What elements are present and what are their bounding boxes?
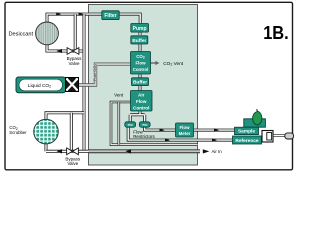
arrow air in	[203, 149, 210, 153]
svg-text:Buffer: Buffer	[132, 38, 146, 44]
wire: buffer2 to air flow control	[139, 86, 142, 91]
wire: reference line	[128, 127, 232, 140]
svg-text:Sample: Sample	[238, 129, 255, 135]
wire: scrubber top pipe	[46, 113, 84, 120]
svg-text:Scrubber: Scrubber	[9, 130, 27, 135]
pump box	[131, 24, 149, 33]
svg-text:Filter: Filter	[104, 13, 116, 19]
flow dash on air line	[126, 149, 132, 153]
svg-text:1B.: 1B.	[263, 23, 289, 43]
flow arrow on reference line 2	[212, 138, 217, 141]
flow restrictor 2	[139, 122, 150, 127]
wire: top pipe desiccant to filter	[47, 14, 102, 22]
wire: sample line	[145, 127, 235, 130]
air flow control box	[131, 91, 153, 112]
wire: air flow control to splitter	[130, 111, 145, 122]
connector socket	[262, 131, 273, 143]
wire: scrubber bottom riser	[45, 144, 48, 152]
svg-text:Valve: Valve	[69, 61, 80, 66]
wire: main vertical line	[83, 14, 86, 151]
svg-text:25%: 25%	[128, 123, 134, 127]
svg-text:Pure CO2: Pure CO2	[92, 64, 98, 82]
svg-text:Desiccant: Desiccant	[9, 31, 34, 37]
buffer box 1	[131, 36, 148, 44]
flow meter box	[176, 123, 194, 137]
wire: air inlet pipe left part with valve	[46, 150, 89, 153]
wire: vent inner branch	[118, 102, 121, 145]
reference box	[233, 136, 262, 144]
svg-text:Reference: Reference	[235, 138, 259, 144]
wire: pump to buffer	[139, 32, 142, 36]
svg-text:Control: Control	[133, 105, 149, 110]
wire: vent loop	[111, 102, 198, 145]
CO2 scrubber sphere	[34, 119, 59, 144]
CO2 flow control box	[131, 52, 151, 75]
svg-text:Flow: Flow	[136, 60, 147, 65]
filter box	[102, 11, 119, 20]
svg-text:CO2 Vent: CO2 Vent	[163, 61, 183, 67]
flow arrow on sample line 2	[214, 128, 219, 131]
wire: pure CO2 line from cartridge to CO2 flow control	[79, 64, 131, 85]
svg-text:Valve: Valve	[67, 161, 78, 166]
svg-text:Vent: Vent	[114, 93, 124, 98]
wire: buffer to co2 flow control	[139, 44, 142, 52]
console green panel	[89, 5, 198, 166]
svg-text:Control: Control	[133, 67, 149, 72]
wire: air inlet pipe thick gray part	[89, 149, 201, 153]
svg-text:Restrictors: Restrictors	[133, 134, 155, 139]
flow arrow on reference line	[165, 138, 170, 141]
wire: scrubber bypass vertical	[70, 113, 73, 152]
connector cap	[285, 133, 294, 139]
flow restrictor 1	[125, 122, 136, 127]
svg-text:75%: 75%	[142, 123, 148, 127]
connector rod	[274, 134, 286, 137]
svg-text:Liquid CO2: Liquid CO2	[28, 83, 51, 89]
flow dash on top pipe 2	[79, 12, 84, 15]
bypass valve 1	[67, 48, 79, 55]
buffer box 2	[132, 78, 149, 86]
flow dash on top pipe	[56, 12, 61, 15]
flow arrow on sample line	[160, 128, 165, 131]
flow dash on air line left	[57, 149, 63, 153]
svg-text:CO2: CO2	[136, 54, 145, 60]
wire: desiccant bypass pipe	[47, 45, 84, 51]
svg-text:Air: Air	[138, 92, 145, 97]
wire: co2 flow control to buffer2	[139, 74, 142, 78]
leaf	[253, 111, 262, 125]
CO2 vent arrow	[151, 62, 156, 64]
liquid CO2 tank	[16, 77, 66, 93]
svg-text:Pump: Pump	[133, 26, 147, 32]
bypass valve 2	[67, 148, 79, 155]
svg-text:Buffer: Buffer	[133, 80, 147, 86]
flow dash on bypass pipe 1	[57, 49, 63, 53]
CO2 cartridge valve block	[66, 78, 79, 92]
svg-text:Meter: Meter	[179, 131, 191, 136]
svg-text:Flow: Flow	[180, 125, 191, 130]
sample box	[235, 127, 259, 134]
wire: desiccant bypass vertical	[74, 14, 77, 51]
desiccant sphere	[36, 22, 59, 45]
svg-text:Air In: Air In	[212, 149, 223, 154]
wire: filter to pump	[119, 14, 140, 24]
svg-text:Flow: Flow	[136, 99, 147, 104]
leaf chamber head	[244, 119, 266, 127]
